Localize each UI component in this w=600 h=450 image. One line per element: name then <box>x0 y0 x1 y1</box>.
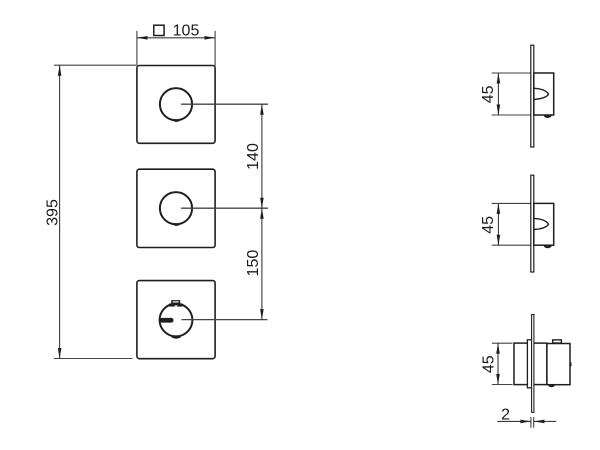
side view C wall plate edge <box>532 315 534 413</box>
dimension 395 extension line top <box>54 64 136 66</box>
side view C extension line top <box>492 342 513 344</box>
side view B extension line top <box>492 202 534 204</box>
dimension 140/150 line <box>261 104 263 319</box>
dimension 105 arrow right <box>205 36 216 40</box>
dimension 105 line <box>137 37 215 39</box>
svg-text:2: 2 <box>501 406 510 423</box>
side view B dimension 45 arrow bottom <box>497 235 501 246</box>
side view C right notch <box>570 362 572 366</box>
dimension 2 arrow right <box>534 420 545 424</box>
side view C escutcheon flange <box>527 340 531 388</box>
side view B dimension 45 arrow top <box>497 203 501 214</box>
side view A knob body <box>534 73 554 115</box>
side view A extension line top <box>492 72 534 74</box>
dimension 395 line <box>59 65 61 358</box>
side view A dimension 45 arrow bottom <box>497 105 501 116</box>
knob K3 indicator notch <box>171 335 181 338</box>
side view A dimension 45 line <box>497 73 499 115</box>
side view C indicator notch <box>548 385 555 387</box>
side view A extension line bottom <box>492 114 534 116</box>
plate S2 (front view middle square escutcheon) <box>137 169 215 247</box>
side view C dimension 45 line <box>497 343 499 384</box>
centerline CL1 <box>181 103 268 105</box>
dimension 2 line left <box>497 420 531 422</box>
side view B dimension 45 line <box>497 203 499 245</box>
knob K3 safety button top tab <box>171 300 180 303</box>
svg-text:45: 45 <box>480 85 497 103</box>
side view B grip recess profile <box>534 218 548 229</box>
square symbol glyph <box>154 25 164 35</box>
side view A grip recess profile <box>534 88 548 99</box>
plate S3 (front view bottom square escutcheon) <box>137 281 215 359</box>
plate S1 (front view top square escutcheon) <box>137 66 215 144</box>
knob K3 safety button slit <box>173 301 179 302</box>
side view C dimension 45 arrow top <box>496 343 500 354</box>
side view A indicator notch <box>544 115 552 118</box>
dimension 395 arrow bottom <box>58 348 62 359</box>
dimension 2 line right <box>534 420 556 422</box>
side view C safety button tab <box>553 340 562 343</box>
knob K3 (front view thermostat handle circle) <box>160 304 193 337</box>
dimension 395 extension line bottom <box>54 358 133 360</box>
side view A dimension 45 arrow top <box>497 73 501 84</box>
side view C valve body box <box>514 343 547 385</box>
knob K1 indicator notch <box>172 119 181 122</box>
knob K3 tab base notch <box>175 305 178 306</box>
dimension 105 extension line right <box>214 31 216 66</box>
knob K2 indicator notch <box>172 223 181 226</box>
dimension 150 arrow bottom <box>260 309 264 320</box>
side view B wall plate edge <box>531 175 534 272</box>
side view B extension line bottom <box>492 244 534 246</box>
dimension 2 extension tick left <box>530 417 532 428</box>
knob K2 (front view middle handle circle) <box>160 192 192 224</box>
side view C dimension 45 arrow bottom <box>496 374 500 385</box>
svg-text:395: 395 <box>45 199 62 226</box>
side view A wall plate edge <box>531 45 534 147</box>
svg-text:150: 150 <box>245 250 262 277</box>
dimension 105 arrow left <box>137 36 148 40</box>
dimension 2 extension tick right <box>533 417 535 428</box>
svg-text:105: 105 <box>173 23 200 40</box>
knob K3 tab base band <box>169 303 182 306</box>
side view C knob body <box>547 344 570 385</box>
dimension 140 arrow bottom <box>260 198 264 209</box>
svg-text:45: 45 <box>480 355 497 373</box>
svg-text:140: 140 <box>245 143 262 170</box>
dimension 2 arrow left <box>520 420 531 424</box>
dimension 140 arrow top <box>260 104 264 115</box>
side view C extension line bottom <box>492 384 513 386</box>
dimension 150 arrow top <box>260 208 264 219</box>
side view B indicator notch <box>544 245 552 248</box>
side view B knob body <box>534 203 554 245</box>
dimension 105 extension line left <box>136 31 138 66</box>
dimension 395 arrow top <box>58 65 62 76</box>
centerline CL3 <box>182 319 268 321</box>
centerline CL2 <box>181 207 268 209</box>
knob K1 (front view top handle circle) <box>160 88 192 120</box>
svg-text:45: 45 <box>480 216 497 234</box>
knob K3 lever grip bar <box>160 318 174 323</box>
